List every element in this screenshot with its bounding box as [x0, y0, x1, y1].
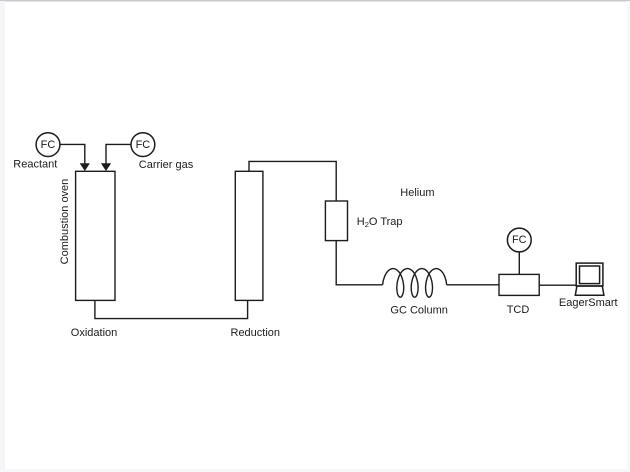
wire: GC column to TCD	[447, 284, 499, 286]
svg-text:TCD: TCD	[507, 304, 530, 316]
H2O trap	[325, 201, 347, 241]
monitor outer shell	[576, 263, 603, 286]
frame left edge	[0, 1, 5, 472]
monitor base trapezoid	[575, 286, 604, 295]
svg-text:Helium: Helium	[400, 187, 434, 199]
wire: TCD to EagerSmart	[539, 284, 576, 286]
svg-text:Reduction: Reduction	[231, 327, 281, 339]
svg-text:Combustion oven: Combustion oven	[59, 179, 71, 265]
FC valve circle V2 (carrier gas)	[131, 133, 155, 157]
svg-text:Reactant: Reactant	[13, 158, 57, 170]
svg-text:FC: FC	[41, 139, 56, 151]
arrowhead: reactant inlet	[80, 164, 89, 171]
svg-text:GC Column: GC Column	[390, 305, 447, 317]
svg-text:FC: FC	[512, 234, 527, 246]
oxidation column (combustion oven)	[76, 171, 115, 300]
TCD block	[499, 274, 539, 295]
svg-text:H2O Trap: H2O Trap	[357, 216, 403, 229]
FC valve circle V1 (reactant)	[36, 133, 60, 157]
wire: reduction top to H2O trap	[249, 161, 336, 201]
svg-text:Carrier gas: Carrier gas	[139, 159, 194, 171]
wire: oxidation outlet to reduction inlet	[95, 300, 248, 318]
reduction column	[235, 171, 263, 300]
wire: V1 to oxidation column inlet	[60, 144, 85, 164]
svg-text:EagerSmart: EagerSmart	[559, 297, 618, 309]
EagerSmart computer icon	[575, 263, 604, 295]
wire: carrier-gas valve V2 to oxidation column inlet	[106, 144, 131, 164]
frame top edge	[0, 0, 630, 2]
frame right edge	[627, 1, 630, 472]
arrowhead: carrier gas inlet	[101, 164, 110, 171]
wire: FC valve V3 to TCD	[518, 252, 520, 274]
svg-text:Oxidation: Oxidation	[71, 327, 117, 339]
frame bottom edge	[0, 469, 630, 472]
GC column coil	[383, 269, 447, 298]
svg-text:FC: FC	[136, 139, 151, 151]
FC valve circle V3 (TCD reference)	[507, 228, 531, 252]
wire: H2O trap to GC column	[336, 241, 382, 285]
monitor screen	[580, 266, 600, 284]
